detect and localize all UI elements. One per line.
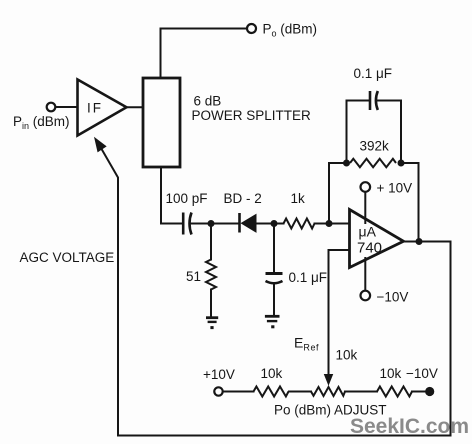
svg-text:0.1 μF: 0.1 μF [354,66,393,81]
svg-text:Po (dBm) ADJUST: Po (dBm) ADJUST [274,403,387,418]
svg-text:10k: 10k [336,348,358,363]
svg-text:BD - 2: BD - 2 [224,191,262,206]
svg-text:+10V: +10V [203,367,235,382]
svg-text:10k: 10k [261,366,283,381]
svg-text:1k: 1k [291,191,306,206]
svg-text:−10V: −10V [406,366,438,381]
svg-text:+ 10V: + 10V [377,181,413,196]
svg-text:392k: 392k [360,139,390,154]
svg-text:POWER SPLITTER: POWER SPLITTER [192,108,312,123]
svg-text:740: 740 [357,240,382,257]
svg-text:6 dB: 6 dB [194,94,222,109]
svg-text:100 pF: 100 pF [166,191,208,206]
svg-text:Pin (dBm): Pin (dBm) [13,114,70,131]
svg-text:μA: μA [359,224,377,240]
svg-text:IF: IF [87,101,103,116]
svg-text:Po (dBm): Po (dBm) [263,22,318,39]
svg-text:0.1 μF: 0.1 μF [289,270,328,285]
svg-text:AGC VOLTAGE: AGC VOLTAGE [20,250,115,265]
svg-text:10k: 10k [380,366,402,381]
svg-text:51: 51 [186,269,201,284]
svg-text:−10V: −10V [377,290,409,305]
